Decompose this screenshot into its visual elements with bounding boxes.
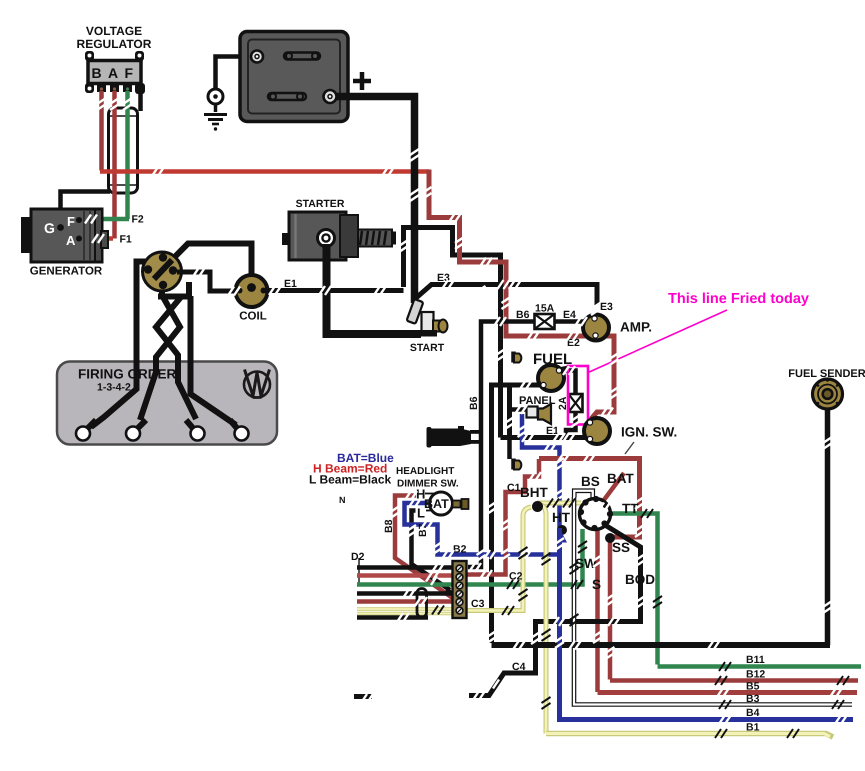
HT junction dot and arrow	[557, 525, 567, 535]
spark plug 1	[86, 420, 96, 430]
wire E1 coil to junction	[268, 288, 404, 293]
start switch lever	[407, 299, 424, 324]
headlight connector plug	[427, 427, 432, 448]
svg-text:REGULATOR: REGULATOR	[77, 37, 152, 51]
wire branch right staircase down (ignition feed)	[414, 228, 501, 438]
wire A terminal maroon down through loom	[112, 91, 117, 239]
fuel sender	[813, 379, 843, 409]
svg-text:B A F: B A F	[91, 65, 134, 81]
svg-text:C2: C2	[509, 571, 523, 583]
svg-text:1-3-4-2: 1-3-4-2	[97, 382, 131, 394]
svg-text:B5: B5	[746, 681, 760, 693]
starter terminal	[318, 230, 335, 247]
wire starter terminal to start switch	[327, 244, 422, 334]
svg-text:B1: B1	[746, 722, 760, 734]
wire hatch marks black	[432, 499, 849, 739]
svg-text:BS: BS	[581, 474, 600, 489]
wire stub E1 to lower connector	[507, 440, 512, 459]
wire plug 2 crossing	[140, 297, 180, 420]
wire fuel sender down to gauge line	[825, 398, 831, 645]
wire fuel sender line gauge to bottom	[492, 385, 544, 643]
svg-text:B6: B6	[468, 396, 480, 410]
plus sign	[353, 72, 371, 90]
wire battery positive thick to right and down	[336, 97, 415, 304]
wire battery negative to ground	[216, 57, 257, 90]
generator body	[21, 217, 31, 253]
dimmer switch body	[430, 492, 453, 515]
wire row5 maroon to strip	[357, 599, 452, 604]
wire TT green to B11	[610, 514, 658, 665]
voltage regulator mounting ears	[85, 51, 145, 94]
svg-text:B11: B11	[746, 654, 765, 666]
wire row6 yellow pair to strip	[357, 607, 455, 610]
light switch body	[580, 499, 611, 530]
connector bullet upper	[511, 352, 516, 363]
wire distributor to coil staircase	[177, 272, 237, 291]
wire B12 dark red	[610, 678, 858, 683]
svg-text:FUEL SENDER: FUEL SENDER	[788, 368, 865, 380]
svg-text:E4: E4	[563, 309, 576, 321]
wire SS black diagonal and BOD	[469, 525, 641, 696]
wire plug1 inside box	[91, 372, 137, 427]
start switch body	[422, 312, 434, 334]
wire plug 3 crossing	[156, 297, 196, 419]
wire row4 black to strip	[357, 591, 452, 596]
loom loop	[417, 589, 427, 618]
wire E3 from start switch to amp	[416, 285, 597, 306]
wire panel lamp feed	[510, 407, 529, 412]
harness loom tube	[109, 108, 138, 193]
wire distributor bottom bar	[158, 294, 191, 300]
svg-text:D2: D2	[351, 551, 365, 563]
battery slot top	[284, 53, 320, 60]
svg-text:F1: F1	[120, 234, 132, 246]
svg-text:BOD: BOD	[625, 572, 655, 587]
wire fuel link vertical to E1	[507, 385, 512, 437]
BHT junction dot	[532, 501, 543, 512]
wire B1 yellow from BHT dot down	[541, 505, 546, 734]
wire B4 blue	[560, 528, 854, 720]
wire BAT needle	[589, 473, 624, 520]
svg-text:B3: B3	[746, 693, 760, 705]
svg-text:B6: B6	[516, 309, 530, 321]
starter bolt	[358, 230, 392, 247]
svg-text:G: G	[44, 220, 55, 236]
fuse 15A	[535, 314, 555, 329]
svg-text:E1: E1	[284, 278, 297, 290]
wire row3 green C2 through strip to light switch	[357, 529, 583, 585]
wire SS maroon down	[608, 538, 613, 680]
wire B7 black from L to strip	[412, 511, 451, 591]
wire B5 red	[598, 690, 858, 695]
spark plug 3	[186, 420, 195, 430]
starter body	[282, 233, 290, 245]
wire fuse to amp E4	[553, 319, 586, 324]
spark plug 2	[136, 420, 146, 430]
svg-text:START: START	[410, 342, 445, 354]
svg-text:This line Fried today: This line Fried today	[668, 291, 809, 307]
wire BHT yellow to switch	[537, 501, 581, 506]
wire branch junction to E1 left	[404, 228, 419, 288]
wire B red horizontal to battery area	[100, 169, 429, 174]
wire regulator right terminal down to harness	[138, 92, 143, 111]
distributor body	[143, 252, 182, 291]
ground	[214, 104, 218, 112]
Willys W logo	[244, 370, 270, 398]
svg-text:C4: C4	[512, 661, 526, 673]
battery slot bottom	[268, 93, 306, 100]
wire E2 red staircase battery to amp	[429, 170, 614, 420]
wire blue BAT to B2 run	[405, 503, 560, 555]
svg-text:SS: SS	[612, 540, 630, 555]
ignition switch gauge	[584, 418, 610, 444]
wire B11 green	[658, 664, 862, 669]
fuse 2A	[569, 394, 583, 412]
svg-text:GENERATOR: GENERATOR	[30, 266, 103, 278]
maroon battery box outline	[539, 459, 640, 538]
svg-text:STARTER: STARTER	[296, 198, 345, 210]
wire B1 yellow	[546, 734, 833, 738]
svg-text:COIL: COIL	[239, 311, 266, 323]
magenta fried box	[568, 366, 588, 425]
wire coil HT lead from distributor	[155, 244, 252, 286]
spark plug 4	[230, 420, 239, 430]
amp gauge	[583, 315, 609, 341]
svg-text:B4: B4	[746, 707, 760, 719]
voltage regulator body	[88, 61, 141, 84]
wire F terminal green down through loom	[125, 91, 130, 219]
terminal strip	[453, 561, 467, 618]
svg-text:HT: HT	[552, 510, 571, 525]
fuel gauge wire to fuse 2A	[562, 371, 576, 438]
svg-text:B12: B12	[746, 669, 765, 681]
svg-text:S: S	[592, 577, 601, 592]
leader line	[625, 442, 634, 454]
svg-text:IGN. SW.: IGN. SW.	[621, 425, 677, 440]
firing order box	[57, 362, 277, 445]
svg-text:F: F	[67, 214, 75, 229]
wire row1 black to strip	[357, 565, 452, 570]
wire C3 yellow strip to BHT leg	[464, 507, 531, 611]
wire B terminal maroon down	[99, 91, 104, 171]
panel lamp	[527, 407, 538, 418]
wire E1 to ignition switch	[501, 435, 589, 440]
wire plug 4	[191, 296, 237, 425]
svg-text:E3: E3	[600, 301, 613, 313]
ring terminal	[208, 89, 223, 104]
svg-text:DIMMER SW.: DIMMER SW.	[397, 479, 459, 490]
wire S maroon down	[595, 528, 600, 692]
dimmer connector	[453, 501, 461, 508]
svg-text:PANEL: PANEL	[519, 395, 556, 407]
wire big black horizontal fuel sender run	[492, 642, 831, 648]
wire hatch marks white	[85, 98, 847, 724]
wire B3 thin white down	[574, 497, 852, 705]
generator terminal dots	[57, 224, 64, 231]
svg-text:E3: E3	[437, 272, 450, 284]
svg-text:C1: C1	[507, 482, 521, 494]
svg-text:BAT: BAT	[424, 497, 449, 511]
BS thin box	[573, 489, 595, 498]
magenta annotation	[587, 310, 727, 373]
wire F1 red to generator A	[78, 236, 113, 241]
battery positive terminal	[324, 90, 337, 103]
svg-text:HEADLIGHT: HEADLIGHT	[396, 466, 454, 477]
svg-text:AMP.: AMP.	[620, 320, 652, 335]
svg-text:B8: B8	[383, 519, 395, 533]
svg-text:FUEL: FUEL	[533, 351, 572, 368]
wire row2 red to strip	[357, 573, 452, 578]
wire C1 maroon staircase to strip	[466, 459, 539, 575]
coil	[236, 275, 268, 307]
SS junction dot	[605, 533, 615, 543]
start switch button	[433, 321, 441, 332]
svg-text:15A: 15A	[535, 303, 555, 315]
wire B6 fuse feed	[468, 322, 535, 568]
battery negative terminal	[251, 51, 263, 63]
wire C4 stub	[354, 694, 372, 699]
wire B8 maroon from H to strip	[395, 496, 457, 602]
connector bullet lower	[511, 459, 516, 470]
wire generator G black up and right to loom	[61, 192, 111, 229]
svg-text:C3: C3	[471, 598, 485, 610]
regulator terminals B A F	[97, 84, 132, 92]
svg-text:BHT: BHT	[520, 485, 548, 500]
wire distributor left to firing box	[137, 262, 147, 373]
svg-text:BAT: BAT	[607, 471, 634, 486]
fuel gauge	[538, 365, 564, 391]
svg-text:FIRING ORDER: FIRING ORDER	[78, 367, 177, 382]
svg-text:A: A	[66, 233, 76, 248]
start switch base	[413, 330, 437, 337]
battery body	[240, 32, 348, 122]
svg-text:N: N	[339, 495, 346, 505]
wire row7 black short	[357, 615, 428, 620]
svg-text:B2: B2	[453, 544, 467, 556]
wire panel blue	[522, 414, 560, 528]
svg-text:VOLTAGE: VOLTAGE	[86, 24, 142, 38]
wire F2 green to generator F	[80, 217, 129, 222]
svg-text:L Beam=Black: L Beam=Black	[309, 473, 391, 487]
svg-text:F2: F2	[132, 214, 144, 226]
